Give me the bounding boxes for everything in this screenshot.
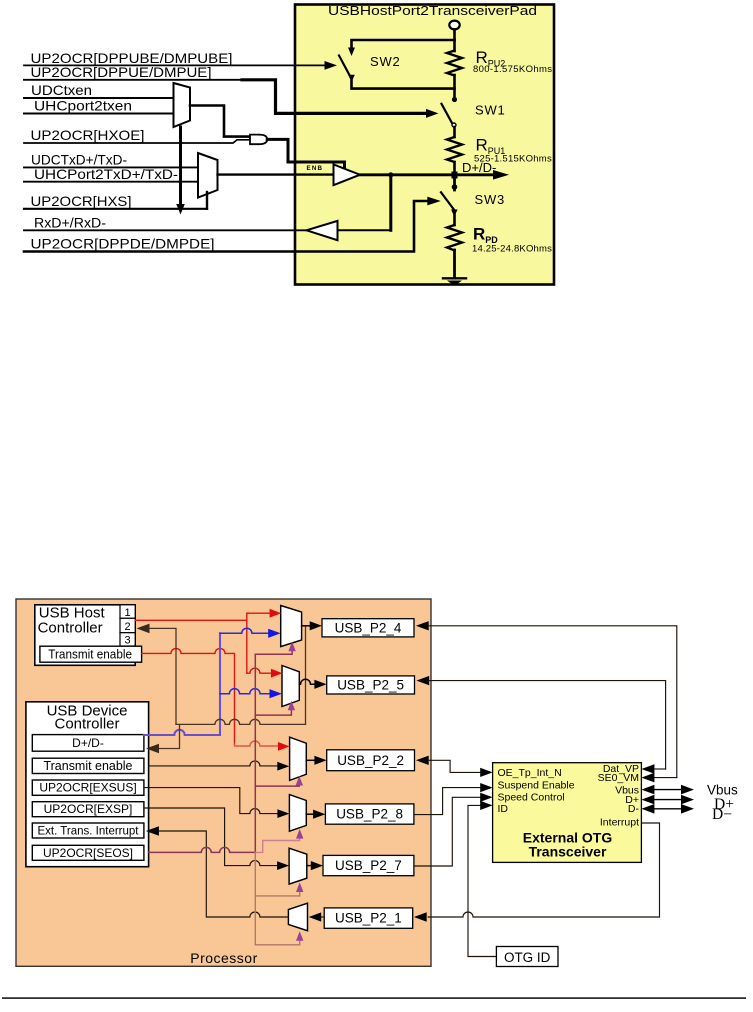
wire: SW2 bottom branch: [352, 81, 455, 89]
arrowhead D+/D-: [493, 170, 509, 180]
ground symbol: [443, 277, 466, 279]
mux U2 (TxD select): [198, 153, 218, 198]
wire R_PD to ground: [453, 250, 456, 278]
arrowhead into Suspend Enable: [480, 783, 492, 792]
wire mux U2 output to buffer: [218, 173, 334, 175]
svg-text:Interrupt: Interrupt: [600, 817, 639, 829]
wire brown: pin2 to down leg: [149, 628, 177, 724]
svg-text:SW1: SW1: [475, 103, 506, 118]
SW2 lower contact tick: [348, 75, 355, 82]
arrowhead select M4: [296, 829, 303, 839]
OTG ID box: [496, 947, 558, 967]
switch SW3 arm: [441, 192, 455, 211]
arrowhead select M6: [296, 931, 303, 941]
arrowhead brown into D+/D-: [146, 744, 159, 754]
mux M2: [282, 666, 299, 707]
wire black: interrupt route to mux M6: [158, 831, 288, 917]
svg-text:UHCport2txen: UHCport2txen: [34, 98, 132, 114]
wire D node to SW3: [453, 175, 456, 190]
junction dot at D node: [452, 172, 458, 179]
svg-text:USB_P2_2: USB_P2_2: [337, 753, 404, 768]
svg-text:Ext. Trans. Interrupt: Ext. Trans. Interrupt: [38, 826, 140, 838]
junction dot RxD tap: [388, 172, 393, 177]
wire select branch mux M5: [255, 891, 299, 896]
arrowhead red M2: [271, 669, 283, 678]
arrowhead M4 input: [277, 809, 289, 818]
arrowhead into USB_P2_4 right: [416, 621, 429, 630]
Ext. Trans. Interrupt box: [32, 823, 144, 838]
wire mux M6 input from USB_P2_1: [320, 916, 324, 918]
wire gate output to ENB: [267, 139, 344, 167]
mux M4: [289, 795, 306, 832]
svg-text:14.25-24.8KOhms: 14.25-24.8KOhms: [472, 244, 552, 255]
USB_P2_8 box: [325, 804, 414, 824]
wire select branch mux M3: [255, 785, 299, 787]
device Transmit enable box: [32, 758, 144, 773]
svg-text:D+/D-: D+/D-: [72, 736, 104, 750]
D- bidirectional arrows: [641, 804, 654, 814]
svg-text:D-: D-: [628, 803, 640, 815]
wire receive buffer input: [338, 229, 391, 231]
Vbus bidirectional arrows: [641, 785, 654, 795]
svg-text:Transmit enable: Transmit enable: [44, 759, 133, 773]
svg-text:UP2OCR[HXS]: UP2OCR[HXS]: [31, 193, 132, 209]
wire OTG ID to ID pin: [468, 805, 496, 956]
wire red to mux M2 (hop over select bus): [247, 668, 271, 673]
svg-text:UHCPort2TxD+/TxD-: UHCPort2TxD+/TxD-: [34, 166, 178, 182]
arrowhead select M2: [288, 701, 295, 711]
wire R_PU2 to SW1: [453, 75, 456, 99]
arrowhead into Dat_VP: [641, 764, 654, 774]
arrowhead M3 input2: [277, 762, 289, 771]
svg-text:Processor: Processor: [190, 950, 258, 966]
arrowhead SW1 control: [426, 109, 439, 118]
wire red: host transmit enable to mux M3: [142, 648, 235, 744]
svg-text:UP2OCR[DPPDE/DMPDE]: UP2OCR[DPPDE/DMPDE]: [31, 236, 215, 252]
svg-text:D−: D−: [712, 806, 732, 823]
arrowhead into USB_P2_2 right: [416, 756, 429, 765]
svg-text:UP2OCR[SEOS]: UP2OCR[SEOS]: [43, 846, 133, 860]
wire UP2OCR[DPPUE/DMPUE] to SW1 control: [24, 79, 243, 81]
wire USB_P2_2 to OE_Tp_Int_N: [428, 760, 481, 772]
wire red vertical bus: [246, 613, 248, 673]
wire Dat_VP stub: [654, 768, 666, 770]
svg-text:USB_P2_7: USB_P2_7: [335, 858, 402, 873]
arrowhead SW2 control: [325, 61, 338, 70]
mux M6 (receive): [288, 903, 307, 931]
External OTG Transceiver box: [493, 763, 642, 863]
resistor R_PD: [447, 225, 462, 251]
wire UP2OCR[DPPDE/DMPDE] to SW3 control: [24, 201, 428, 252]
wire RxD tap vertical: [389, 175, 392, 231]
svg-text:SW3: SW3: [475, 192, 506, 207]
arrowhead SW3 control: [427, 197, 441, 206]
arrowhead into USB_P2_1 right: [414, 912, 427, 921]
wire: SW2 top branch: [352, 40, 455, 48]
pin 1: [120, 605, 135, 619]
svg-text:OE_Tp_Int_N: OE_Tp_Int_N: [498, 767, 562, 779]
USB Device Controller box: [26, 702, 149, 867]
wire blue to mux M2 (hops): [220, 689, 269, 694]
svg-text:USB_P2_8: USB_P2_8: [336, 807, 403, 822]
wire UDCTxD+/TxD-: [24, 166, 198, 168]
wire buffer output / D+/D- node line: [360, 173, 496, 176]
svg-text:UDCtxen: UDCtxen: [31, 82, 92, 98]
wire maroon: UP2OCR[SEOS] select line (hops): [149, 847, 256, 852]
USBHostPort2TransceiverPad yellow box: [295, 5, 554, 285]
wire mux M3 output: [306, 759, 315, 761]
svg-text:SE0_VM: SE0_VM: [598, 772, 639, 784]
wire black: UP2OCR[EXSP] to mux M5: [144, 808, 278, 866]
wire mux M5 output: [307, 865, 312, 867]
wire USB_P2_8 to Suspend Enable: [414, 788, 481, 815]
SW3 lower contact tick: [451, 210, 458, 217]
USB_P2_1 box: [324, 908, 413, 928]
svg-text:SW2: SW2: [370, 54, 401, 69]
USB_P2_2 box: [327, 750, 415, 771]
wire select branch mux M1: [255, 650, 292, 654]
arrowhead blue M1: [268, 629, 281, 638]
wire black: UP2OCR[EXSUS] to mux M4: [144, 788, 278, 814]
USB_P2_5 box: [327, 676, 415, 694]
wire blue to mux M1 (hop over red): [220, 628, 269, 633]
svg-text:UP2OCR[EXSUS]: UP2OCR[EXSUS]: [39, 781, 136, 795]
arrowhead select down: [176, 204, 185, 215]
wire R_PU1 to D node: [453, 162, 456, 175]
svg-text:1: 1: [125, 607, 131, 619]
svg-text:Speed Control: Speed Control: [498, 791, 565, 803]
svg-text:UP2OCR[DPPUE/DMPUE]: UP2OCR[DPPUE/DMPUE]: [31, 64, 212, 80]
wire violet: device D+/D- to column: [144, 633, 220, 735]
D+/D- box: [32, 735, 144, 752]
arrowhead M3 to USB_P2_2: [314, 756, 326, 765]
arrowhead into Ext. Trans. Interrupt: [146, 826, 159, 836]
pin 3: [120, 633, 135, 646]
svg-text:ENB: ENB: [307, 165, 324, 172]
junction dot SW1 top: [452, 97, 457, 102]
transmit buffer triangle: [334, 164, 361, 185]
arrowhead select M3: [296, 776, 303, 786]
wire brown horizontal (hops): [176, 719, 306, 724]
UP2OCR[EXSUS] box: [32, 780, 144, 795]
wire select branch mux M4 (pink): [255, 838, 299, 853]
arrowhead into USB_P2_5 right: [416, 676, 429, 685]
wire select branch mux M6: [255, 940, 299, 945]
wire Interrupt pin to USB_P2_1 (hop over OTG ID wire): [428, 823, 659, 917]
arrowhead M2 to USB_P2_5: [314, 680, 326, 689]
svg-text:ID: ID: [498, 803, 509, 815]
UP2OCR[SEOS] box: [32, 845, 144, 860]
mux M1: [281, 606, 302, 647]
arrowhead into ID: [480, 801, 492, 810]
arrowhead red M3: [278, 742, 290, 751]
svg-text:Transceiver: Transceiver: [529, 843, 607, 859]
wire maroon select bus (upper): [254, 654, 256, 852]
wire UHCport2txen: [24, 113, 174, 115]
host Transmit enable box: [40, 646, 142, 662]
svg-text:800-1.575KOhms: 800-1.575KOhms: [473, 64, 552, 75]
wire RxD+/RxD-: [24, 229, 307, 231]
arrowhead blue M2: [270, 689, 283, 698]
junction dot SW3 top: [452, 184, 458, 190]
mux U1 (txen select): [174, 83, 191, 127]
arrowhead select M1: [288, 642, 295, 652]
svg-text:USB_P2_1: USB_P2_1: [335, 911, 402, 926]
footer rule: [2, 997, 746, 999]
wire red: host pin1 out: [135, 619, 247, 621]
arrowhead into mux M6: [309, 912, 322, 921]
wire USB_P2_5 to Dat_VP: [429, 681, 666, 769]
pin 2: [120, 618, 135, 632]
wire mux M2 output (hop): [299, 679, 315, 684]
wire black: device transmit enable to mux M3: [149, 761, 278, 766]
mux M5: [289, 848, 307, 884]
svg-text:Suspend Enable: Suspend Enable: [498, 780, 575, 792]
pad terminal circle: [449, 21, 459, 30]
SW2 upper contact arrow: [348, 48, 355, 57]
arrowhead into SE0_VM: [641, 773, 654, 783]
arrowhead into OE_Tp_Int_N: [480, 768, 492, 777]
wire USB_P2_4 to SE0_VM: [428, 626, 676, 778]
svg-text:UP2OCR[HXOE]: UP2OCR[HXOE]: [31, 127, 145, 143]
svg-text:3: 3: [125, 635, 131, 647]
wire mux M4 output: [306, 813, 313, 815]
UP2OCR[EXSP] box: [32, 802, 144, 817]
USB_P2_7 box: [323, 855, 414, 875]
Processor box: [16, 599, 431, 966]
wire red to mux M1: [247, 612, 270, 614]
wire mux M1 output: [302, 625, 311, 627]
wire SW3 to R_PD: [453, 214, 456, 225]
svg-text:UP2OCR[EXSP]: UP2OCR[EXSP]: [44, 802, 133, 816]
wire UHCPort2TxD+/TxD-: [24, 181, 198, 183]
svg-text:2: 2: [125, 621, 131, 633]
resistor R_PU2: [447, 51, 462, 76]
arrowhead M5 to USB_P2_7: [311, 861, 323, 870]
D+ bidirectional arrows: [641, 795, 654, 805]
wire brown: to device D+/D-: [159, 724, 180, 748]
svg-text:Controller: Controller: [54, 716, 119, 733]
svg-text:RxD+/RxD-: RxD+/RxD-: [34, 215, 106, 231]
svg-text:OTG ID: OTG ID: [504, 950, 551, 965]
USB Host Controller box: [35, 605, 135, 666]
receive buffer triangle: [307, 221, 338, 240]
wire select branch mux M2: [255, 709, 291, 715]
USB_P2_4 box: [322, 619, 414, 637]
svg-text:D+/D-: D+/D-: [462, 160, 496, 175]
svg-text:Controller: Controller: [38, 620, 103, 637]
wire USB_P2_7 to Speed Control: [414, 797, 481, 866]
arrowhead select M5: [296, 882, 303, 892]
svg-text:USBHostPort2TransceiverPad: USBHostPort2TransceiverPad: [328, 4, 537, 18]
switch SW2 arm: [339, 56, 351, 78]
SW1 contact circle: [452, 123, 456, 127]
arrowhead red M1: [270, 609, 282, 618]
wire SW1 to R_PU1: [453, 127, 456, 137]
arrowhead M1 to USB_P2_4: [310, 621, 322, 630]
wire UP2OCR[HXS]: [24, 208, 207, 210]
wire brown: mux M1 output drop: [305, 626, 307, 725]
wire select bus (lower, light): [254, 852, 256, 944]
wire mux U1 output: [190, 106, 250, 137]
wire UDCtxen: [24, 97, 174, 99]
wire: terminal down to R_PU2: [453, 29, 456, 51]
wire UP2OCR[DPPUBE/DMPUBE] to SW2 control: [24, 64, 326, 66]
wire mux U2 select: [206, 192, 208, 209]
wire mux U1 select (to HXS line): [179, 127, 182, 206]
svg-text:USB_P2_5: USB_P2_5: [337, 678, 404, 693]
wire UP2OCR[HXOE]: [24, 140, 250, 143]
arrowhead brown into host pin2: [137, 624, 150, 634]
arrowhead M4 to USB_P2_8: [313, 810, 325, 819]
arrowhead M5 input: [277, 861, 289, 870]
mux M3: [290, 737, 307, 780]
svg-text:Transmit enable: Transmit enable: [48, 647, 132, 661]
wire SE0_VM stub: [654, 777, 677, 779]
switch SW1 arm: [442, 104, 453, 124]
arrowhead into Speed Control: [480, 793, 492, 802]
output-enable gate: [250, 135, 267, 145]
resistor R_PU1: [447, 137, 462, 162]
svg-text:USB_P2_4: USB_P2_4: [335, 621, 402, 636]
